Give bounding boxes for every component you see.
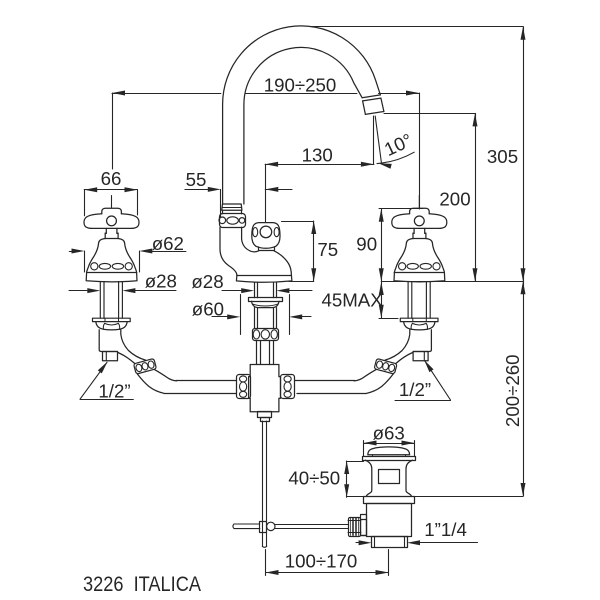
svg-text:305: 305 [487, 146, 518, 167]
svg-text:100÷170: 100÷170 [285, 551, 358, 572]
svg-text:190÷250: 190÷250 [264, 75, 337, 96]
svg-text:1”1/4: 1”1/4 [424, 519, 467, 540]
svg-text:200÷260: 200÷260 [502, 354, 523, 427]
svg-text:ø62: ø62 [152, 233, 184, 254]
svg-text:200: 200 [439, 189, 470, 210]
svg-text:45MAX: 45MAX [321, 290, 383, 311]
svg-text:90: 90 [356, 234, 377, 255]
svg-text:55: 55 [186, 169, 207, 190]
svg-text:ø63: ø63 [373, 423, 405, 444]
svg-text:1/2”: 1/2” [399, 379, 431, 400]
svg-text:75: 75 [317, 239, 338, 260]
svg-text:ø28: ø28 [191, 271, 223, 292]
svg-text:ø28: ø28 [145, 271, 177, 292]
svg-text:ø60: ø60 [192, 299, 224, 320]
svg-text:40÷50: 40÷50 [288, 468, 340, 489]
svg-text:1/2”: 1/2” [98, 381, 130, 402]
svg-text:66: 66 [101, 168, 122, 189]
svg-text:130: 130 [302, 145, 333, 166]
svg-text:3226 ITALICA: 3226 ITALICA [83, 572, 202, 596]
